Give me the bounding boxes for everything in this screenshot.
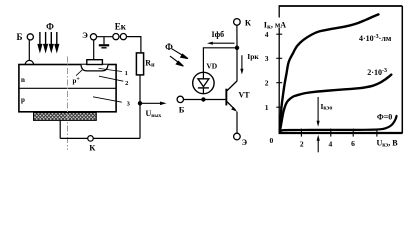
wire resistor to output node [139, 75, 141, 138]
frame right [401, 6, 403, 134]
wire Ек to resistor [127, 37, 141, 53]
curve Ф=2e-3 [280, 75, 392, 132]
leader 2 and label 2 [99, 76, 123, 81]
terminal К circle [234, 19, 241, 26]
terminal Ек circle 2 [120, 34, 126, 40]
base contact dome [25, 60, 33, 64]
svg-text:4: 4 [329, 139, 333, 148]
wire Э to Ек [97, 36, 113, 38]
y-axis [278, 6, 280, 134]
arrow Iфб [212, 42, 235, 44]
frame top [279, 5, 403, 7]
terminal Э circle [234, 133, 241, 140]
svg-text:0: 0 [270, 136, 274, 145]
svg-text:2: 2 [265, 79, 269, 88]
x-axis [279, 132, 403, 134]
svg-text:1: 1 [265, 103, 269, 112]
svg-text:2: 2 [125, 80, 128, 87]
light arrows onto photodiode [170, 49, 188, 66]
svg-text:n: n [21, 76, 25, 84]
wire Э terminal to emitter cap [93, 40, 95, 60]
p+ emitter diffusion dome [81, 65, 108, 71]
svg-text:1: 1 [125, 70, 128, 77]
wire diode top run to collector [203, 48, 237, 73]
node junction dot [138, 101, 142, 105]
svg-text:Ф=0: Ф=0 [377, 113, 392, 122]
wire bottom run to К [60, 137, 88, 139]
svg-text:VT: VT [238, 91, 250, 100]
semiconductor body rectangle [19, 65, 116, 112]
svg-text:Ек: Ек [115, 22, 127, 32]
ground [103, 37, 105, 45]
terminal Э circle [90, 34, 96, 40]
wire collector contact down [59, 120, 61, 138]
resistor Rн [136, 53, 143, 75]
centre dash-dot line [67, 57, 69, 151]
emitter wire down [236, 112, 238, 134]
leader 3 and label 3 [93, 97, 122, 102]
transistor VT base bar [225, 89, 227, 106]
svg-text:Ф: Ф [165, 42, 173, 52]
diode symbol [198, 79, 209, 87]
arrow Iрк [241, 55, 243, 70]
svg-text:VD: VD [206, 62, 217, 71]
emitter metallization cap [87, 60, 103, 65]
axis label Iк, мА [263, 18, 292, 29]
svg-text:4: 4 [265, 30, 269, 39]
x ticks [301, 129, 377, 137]
collector hatched contact [34, 113, 97, 121]
svg-text:Iфб: Iфб [212, 30, 225, 39]
leader 1 and label 1 [99, 68, 123, 71]
collector lead [227, 81, 237, 91]
base wire [184, 99, 226, 101]
svg-text:Iрк: Iрк [247, 52, 259, 61]
y ticks [276, 34, 282, 107]
svg-text:Uкэ, В: Uкэ, В [377, 139, 399, 149]
svg-text:Б: Б [17, 32, 23, 42]
n/p junction divider [19, 87, 116, 89]
svg-text:К: К [245, 18, 252, 28]
svg-text:Ф: Ф [46, 22, 54, 32]
terminal Б circle [177, 96, 183, 102]
wire К down to junction and collector [236, 25, 238, 48]
terminal Б circle [27, 34, 33, 40]
junction dot base [201, 97, 205, 101]
wire Б terminal to base contact [28, 40, 30, 61]
svg-text:Э: Э [82, 30, 88, 40]
svg-text:К: К [89, 143, 96, 153]
Iкэо dimension arrows [317, 97, 319, 122]
svg-text:p: p [21, 96, 25, 104]
curve Ф=0 [280, 116, 397, 132]
light arrows onto structure [38, 32, 58, 51]
svg-text:Э: Э [242, 138, 248, 147]
svg-text:3: 3 [265, 54, 269, 63]
wire К to output node [93, 137, 140, 139]
terminal Ек circle 1 [113, 34, 119, 40]
terminal К circle [88, 136, 94, 142]
photodiode VD circle [193, 72, 214, 93]
junction dot collector top [235, 46, 239, 50]
arrow Uвых [142, 102, 162, 104]
svg-text:2: 2 [300, 139, 304, 148]
emitter lead with arrow [227, 102, 236, 111]
svg-text:Б: Б [179, 105, 185, 115]
svg-text:6: 6 [351, 139, 355, 148]
curve Ф=4e-3 лм [280, 14, 379, 130]
